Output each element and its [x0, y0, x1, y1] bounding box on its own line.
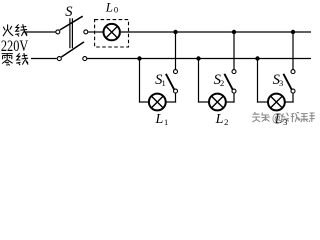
node junction dot on live wire, branch 3	[291, 30, 295, 34]
wire branch 3: lamp L3 left and up to neutral wire	[257, 101, 268, 103]
svg-text:220V: 220V	[1, 38, 28, 56]
svg-text:L: L	[155, 112, 164, 127]
wire branch 1: lamp L1 left and up to neutral wire	[139, 101, 148, 103]
node junction dot on live wire, branch 2	[232, 30, 236, 34]
switch S2 top terminal	[232, 70, 236, 74]
switch S3 top terminal	[291, 70, 295, 74]
label 零线 (neutral wire)	[2, 53, 29, 66]
svg-text:3: 3	[279, 78, 283, 88]
switch S3 bottom terminal	[291, 89, 295, 93]
wire branch 3: live wire down to switch S3	[292, 32, 294, 69]
node junction dot on neutral wire, branch 2	[196, 56, 200, 60]
wire neutral: switch S to right end	[87, 58, 311, 60]
lamp L2	[209, 94, 226, 111]
switch S top pole left terminal	[56, 30, 60, 34]
switch S2 bottom terminal	[232, 89, 236, 93]
switch S linkage double line	[69, 18, 71, 48]
wire live: switch S to lamp L0	[88, 31, 103, 33]
label 火线 (live wire)	[3, 24, 27, 36]
switch S1 top terminal	[174, 70, 178, 74]
svg-text:1: 1	[162, 78, 166, 88]
node junction dot on neutral wire, branch 1	[137, 56, 141, 60]
wire branch 3: switch S3 down and left to lamp L3	[292, 93, 294, 102]
switch S1 blade	[166, 74, 174, 90]
switch S2 blade	[224, 74, 232, 90]
wire neutral: label to switch S	[31, 58, 57, 60]
switch S bottom pole left terminal	[57, 57, 61, 61]
dashed box around lamp L0	[95, 20, 129, 47]
watermark 头条 @陈说教育 (gray)	[252, 112, 315, 122]
switch S top pole right terminal	[84, 30, 88, 34]
wire branch 2: switch S2 down and left to lamp L2	[233, 93, 235, 102]
lamp L0	[104, 24, 120, 40]
switch S3 blade	[283, 74, 291, 90]
switch S top pole blade	[60, 16, 83, 30]
wire live: lamp L0 to right end	[121, 31, 311, 33]
wire branch 1: switch S1 down and left to lamp L1	[175, 93, 177, 102]
svg-text:0: 0	[114, 5, 118, 15]
svg-text:@: @	[272, 113, 284, 125]
svg-text:1: 1	[164, 117, 168, 127]
svg-text:2: 2	[220, 78, 224, 88]
node junction dot on neutral wire, branch 3	[255, 56, 259, 60]
node junction dot on live wire, branch 1	[173, 30, 177, 34]
svg-text:S: S	[65, 4, 73, 20]
lamp L3	[268, 94, 285, 111]
switch S bottom pole right terminal	[83, 57, 87, 61]
switch S1 bottom terminal	[174, 89, 178, 93]
lamp L1	[149, 94, 166, 111]
svg-text:L: L	[105, 0, 113, 14]
wire branch 2: live wire down to switch S2	[233, 32, 235, 69]
switch S bottom pole blade	[61, 42, 84, 57]
svg-text:L: L	[215, 112, 224, 127]
wire live: label to switch S	[23, 31, 55, 33]
wire branch 1: live wire down to switch S1	[175, 32, 177, 69]
svg-text:2: 2	[224, 117, 228, 127]
wire branch 2: lamp L2 left and up to neutral wire	[198, 101, 209, 103]
